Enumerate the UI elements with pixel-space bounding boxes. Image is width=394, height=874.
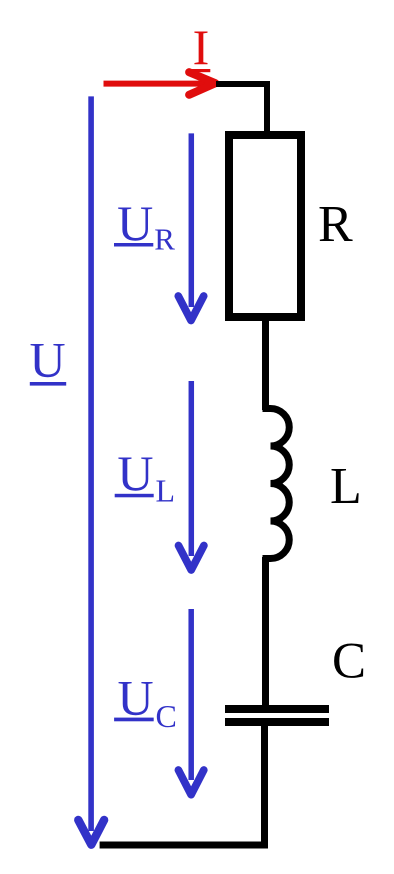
wire inductor to capacitor bbox=[262, 557, 269, 707]
capacitor C bbox=[225, 709, 329, 722]
voltage arrow UL bbox=[179, 381, 204, 570]
voltage arrow U bbox=[78, 96, 104, 844]
label I bbox=[192, 19, 210, 75]
svg-text:U: U bbox=[117, 195, 153, 251]
voltage arrow UR bbox=[178, 133, 203, 320]
label UC bbox=[114, 670, 177, 735]
resistor R bbox=[229, 135, 301, 317]
label UL bbox=[115, 445, 175, 509]
svg-text:L: L bbox=[330, 458, 362, 515]
voltage arrow UC bbox=[178, 609, 203, 795]
svg-text:L: L bbox=[156, 473, 176, 509]
wire capacitor to bottom bbox=[100, 726, 265, 845]
svg-text:U: U bbox=[118, 670, 154, 726]
wire resistor to inductor bbox=[262, 319, 269, 410]
svg-text:I: I bbox=[193, 19, 210, 75]
svg-text:R: R bbox=[318, 196, 353, 253]
svg-text:C: C bbox=[156, 698, 177, 734]
svg-text:U: U bbox=[29, 332, 65, 388]
svg-text:U: U bbox=[117, 445, 153, 501]
inductor L bbox=[263, 409, 290, 559]
wire top bbox=[216, 84, 267, 140]
label UR bbox=[114, 195, 175, 256]
svg-text:R: R bbox=[154, 221, 175, 256]
current arrow I bbox=[104, 72, 216, 95]
label U bbox=[29, 332, 66, 388]
svg-text:C: C bbox=[332, 634, 366, 690]
